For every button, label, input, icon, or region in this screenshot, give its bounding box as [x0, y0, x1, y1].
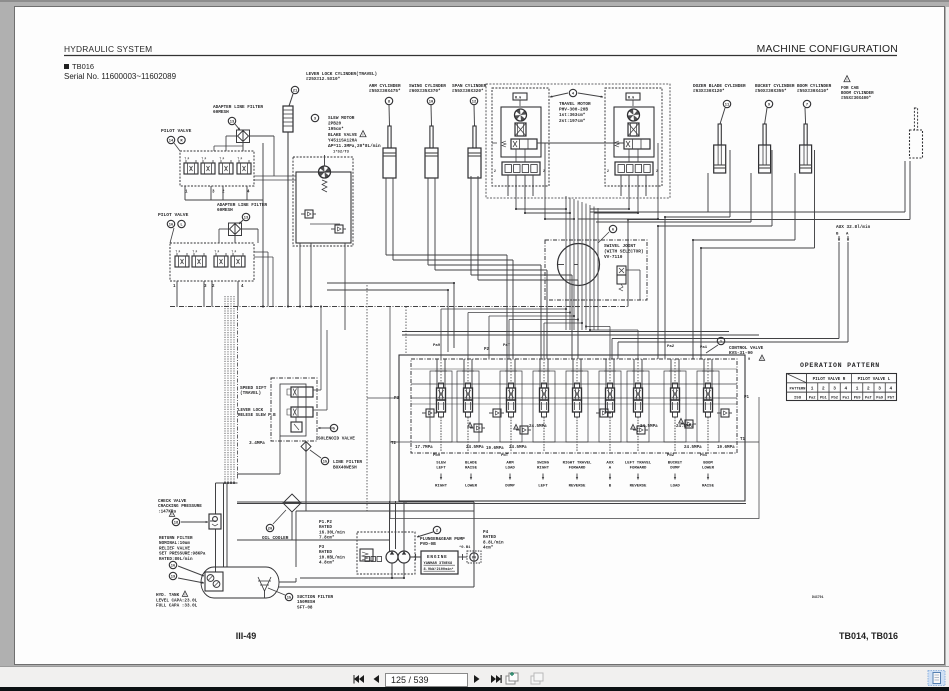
right travel section: [566, 371, 588, 442]
callout 13: [228, 117, 235, 124]
hydraulic tank: [201, 567, 279, 598]
outer enclosure: [390, 307, 759, 519]
engine box: [421, 551, 458, 574]
arm cylinder lines: [385, 178, 387, 255]
span cylinder barrel: [468, 148, 481, 178]
operation pattern table: [787, 374, 897, 401]
bundle feeders from travel motors: [515, 196, 517, 209]
dozer cylinder barrel: [714, 145, 726, 173]
callout 19: [169, 572, 176, 579]
slew motor M3 assembly: [293, 157, 353, 246]
span cylinder lines: [470, 176, 472, 275]
arm section: [500, 371, 522, 442]
slew motor circle: [319, 166, 331, 178]
central line bundle (travel lines through swivel): [565, 196, 567, 330]
callout 20: [266, 524, 273, 531]
callout 13b: [242, 213, 249, 220]
span cylinder rod: [473, 126, 476, 148]
main gallery lines: [411, 383, 737, 385]
right side page-mode icon (selected): [928, 671, 945, 686]
callout 12: [470, 97, 477, 104]
engine return line: [278, 586, 474, 588]
pilot valve R drop lines: [184, 186, 186, 200]
callout L: [178, 220, 185, 227]
slew section: [430, 371, 452, 442]
pump assembly P2: [357, 532, 415, 574]
for cab boom cylinder note: [844, 76, 850, 82]
junction dots: [515, 208, 517, 210]
tank outlet to pumps: [279, 581, 296, 583]
callout 5 solenoid valve: [330, 424, 337, 431]
bucket cylinder rod: [763, 124, 766, 145]
pilot L outlet lines: [254, 251, 268, 253]
bucket cylinder barrel: [759, 145, 771, 173]
swivel joint U6: [545, 240, 647, 300]
bucket cylinder C9: [765, 108, 767, 124]
pilot valve L assembly: [170, 243, 254, 281]
dozer cylinder rod: [718, 124, 721, 145]
left trunk to tank: [224, 296, 226, 483]
boom cylinder barrel: [800, 145, 812, 173]
callout R: [178, 136, 185, 143]
callout 9: [765, 100, 772, 107]
slew relief b: [335, 225, 343, 233]
slew motor drain lines: [299, 243, 301, 307]
bundle fan-out to bank ports: [441, 308, 566, 310]
pump suction/delivery lines: [389, 501, 391, 551]
model label TB016: [64, 64, 69, 69]
oil cooler link: [291, 512, 293, 540]
pilot valve R assembly: [180, 151, 254, 186]
last page button: [491, 675, 496, 683]
slew brake spring: [322, 180, 327, 192]
callout 16: [167, 220, 174, 227]
left travel section: [627, 371, 649, 442]
relief boom: [721, 409, 729, 417]
dropdown arrow: [459, 678, 463, 682]
lever lock cylinder C21: [289, 94, 293, 106]
line filter F15: [301, 442, 311, 452]
pilot bus upper line: [327, 282, 454, 284]
solenoid drop lines: [297, 397, 299, 407]
relief blade: [474, 424, 482, 432]
callout 11: [723, 100, 730, 107]
swing cylinder lines: [427, 178, 429, 265]
relief d: [600, 409, 608, 417]
next page button: [474, 675, 480, 683]
arm cylinder C8: [388, 105, 391, 126]
swivel joint label: [609, 225, 616, 232]
swing cylinder barrel: [425, 148, 438, 178]
dotted pilot verticals: [366, 285, 368, 511]
control valve dashed box: [411, 359, 737, 453]
dozer blade cylinder C11: [720, 108, 725, 124]
control valve callout: [717, 337, 724, 344]
travel motors outer dashed box: [486, 84, 670, 198]
swing cylinder rod: [430, 126, 433, 148]
boom cylinder rod: [804, 124, 807, 145]
check valve feed: [210, 520, 216, 522]
pump circles: [386, 551, 398, 563]
relief c: [493, 409, 501, 417]
right side cylinder Z-routing: [707, 173, 709, 212]
optional cab boom cylinder (dashed): [914, 108, 917, 130]
swing cylinder C10: [430, 105, 433, 126]
valve bank inlet verticals: [657, 334, 659, 359]
top port stubs: [440, 345, 442, 359]
oil cooler F20: [283, 494, 301, 512]
engine shaft: [410, 556, 421, 558]
control valve outer box: [399, 355, 745, 501]
arm cylinder rod: [388, 126, 391, 148]
adapter line filter F13 (upper): [235, 124, 240, 130]
callout 7: [803, 100, 810, 107]
pilot valve L drop lines: [176, 281, 178, 307]
swing section: [533, 371, 555, 442]
bucket section: [664, 371, 686, 442]
travel motor right (4): [605, 88, 662, 186]
lower enclosure lines: [237, 501, 474, 503]
callout 21: [291, 86, 298, 93]
pump P4: [467, 551, 481, 563]
travel motor label: [569, 89, 576, 96]
relief arm: [520, 426, 528, 434]
travel motor crossover wire: [537, 142, 624, 144]
pilot bus dash-dot line: [170, 306, 628, 308]
check valve V18: [209, 514, 221, 529]
travel motor left (4): [492, 88, 549, 186]
pump callout 2: [433, 526, 440, 533]
solenoid valve block V5: [271, 378, 317, 441]
callout 18: [172, 518, 179, 525]
aux section: [599, 371, 621, 442]
header rule: [64, 55, 897, 57]
toolbar icon: spread view: [506, 673, 518, 684]
slew motor label: [311, 114, 318, 121]
pilot R to slew lines: [254, 175, 296, 177]
callout 16b: [169, 561, 176, 568]
relief slew L: [426, 409, 434, 417]
relief bucket: [685, 420, 693, 428]
slew relief a: [305, 210, 313, 218]
prev page button: [374, 675, 380, 683]
aux lines A/B: [838, 242, 840, 339]
return filter F16/F19: [205, 572, 223, 591]
arm cylinder barrel: [383, 148, 396, 178]
swivel selector valve: [617, 266, 626, 275]
callout 14: [167, 136, 174, 143]
callout 15b: [285, 593, 292, 600]
blade section: [457, 371, 479, 442]
span cylinder C12: [473, 105, 476, 126]
suction filter F15b: [258, 577, 271, 591]
pump regulator: [360, 549, 373, 561]
P3 port link: [367, 397, 399, 399]
adapter line filter F13 (lower): [239, 220, 243, 224]
boom cylinder C7: [804, 108, 807, 124]
boom section: [697, 371, 719, 442]
relief lt: [637, 426, 645, 434]
callout 10: [427, 97, 434, 104]
bus lines into control valve top: [402, 331, 729, 333]
callout 8: [385, 97, 392, 104]
